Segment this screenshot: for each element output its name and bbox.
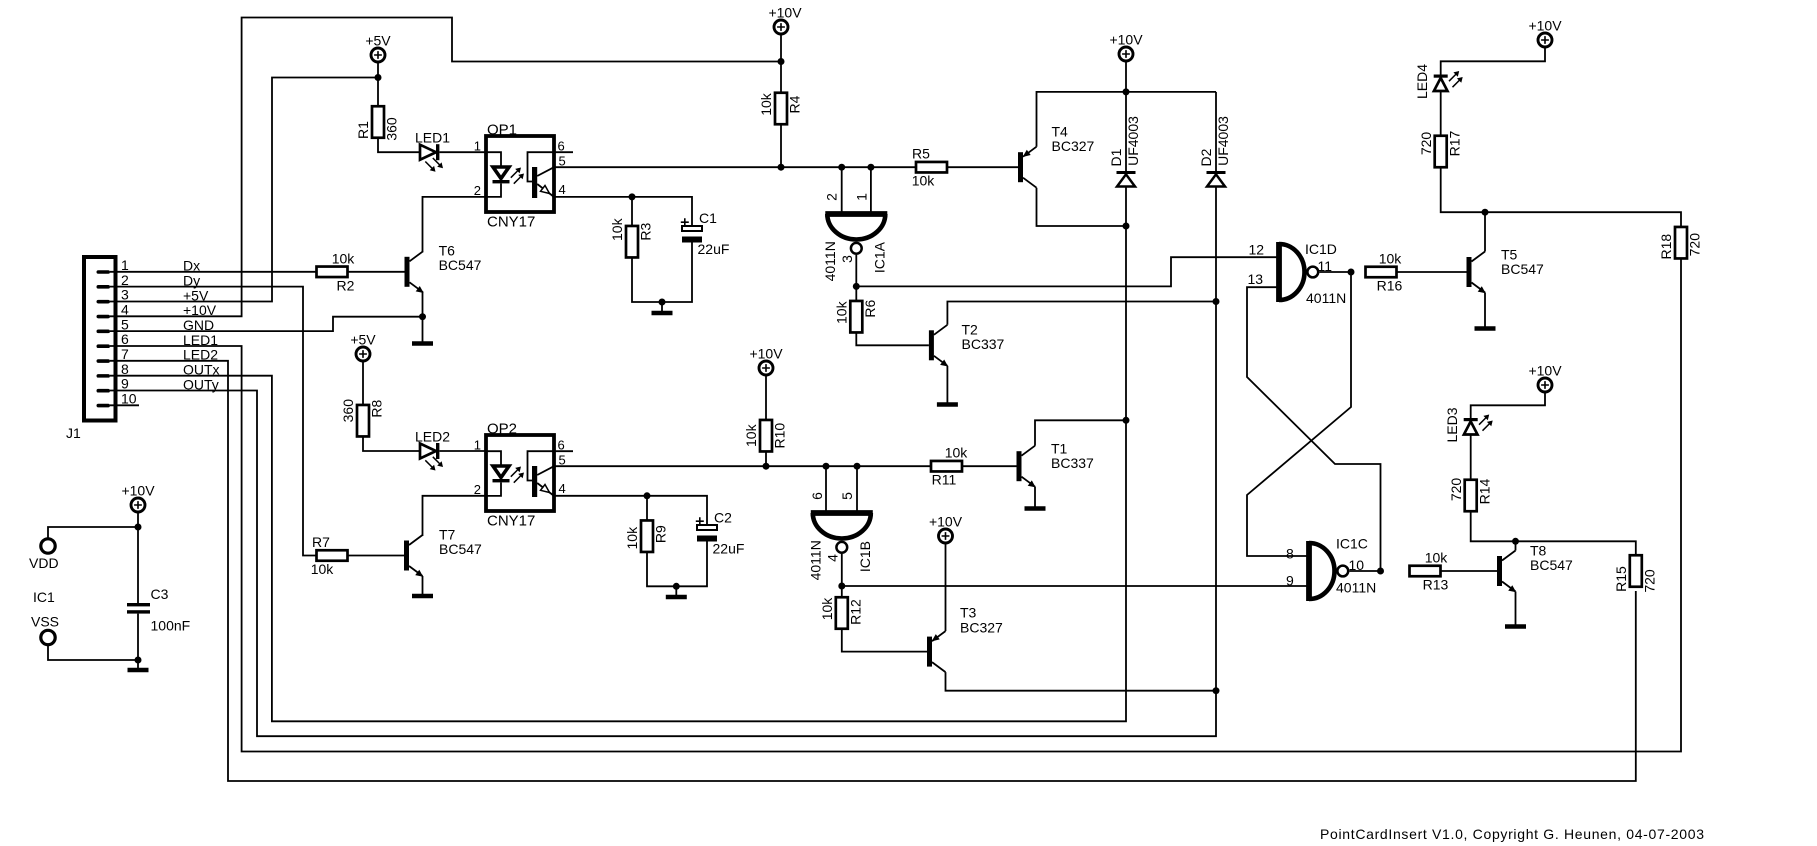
wire IC1B out to IC1C pin9 [842, 585, 1307, 587]
svg-text:3: 3 [121, 287, 129, 303]
svg-text:1: 1 [121, 257, 129, 273]
svg-text:5: 5 [121, 316, 129, 332]
power +10V (R10) [749, 346, 783, 376]
svg-text:BC547: BC547 [1530, 557, 1573, 573]
svg-text:UF4003: UF4003 [1215, 116, 1231, 166]
wire pin1 Dx to R2 [110, 271, 317, 273]
svg-text:BC337: BC337 [962, 336, 1005, 352]
svg-text:4011N: 4011N [808, 540, 824, 580]
svg-text:+10V: +10V [121, 483, 155, 499]
svg-text:IC1B: IC1B [857, 541, 873, 572]
svg-text:4: 4 [559, 481, 566, 496]
svg-text:+5V: +5V [350, 332, 376, 348]
wire IC1C out cross to IC1D pin13 [1247, 287, 1381, 571]
svg-text:R18: R18 [1658, 234, 1674, 260]
svg-text:BC547: BC547 [1501, 261, 1544, 277]
wire IC1B input pin6 [825, 466, 827, 511]
svg-text:100nF: 100nF [151, 618, 191, 634]
resistor R6 10k [834, 300, 879, 333]
svg-text:LED1: LED1 [415, 130, 450, 146]
junction IC1D out/R16 [1348, 269, 1355, 276]
wire +10V to LED4 [1441, 47, 1545, 75]
wire T3 collector [946, 672, 1217, 691]
wire pin8 OUTx to D1 node [110, 186, 1126, 721]
wire R12 to T3 base [842, 629, 928, 652]
svg-text:R2: R2 [337, 277, 355, 293]
wire R5 to T4 base [947, 166, 1018, 168]
svg-text:T8: T8 [1530, 542, 1547, 558]
svg-text:8: 8 [121, 361, 129, 377]
junction T5 collector/LED4/R18 [1482, 209, 1489, 216]
svg-text:720: 720 [1448, 478, 1464, 502]
nand gate IC1B 4011N [808, 492, 874, 581]
wire D2 top [1215, 92, 1217, 171]
junction pin4/R3 [629, 193, 636, 200]
J1 net name labels [183, 258, 220, 393]
junction D2/T3 collector [1213, 687, 1220, 694]
wire +10V to R10 [765, 375, 767, 421]
ground R9/C2 [666, 586, 687, 597]
wire pin9 OUTy to D2 node [110, 186, 1216, 736]
transistor T7 BC547 [404, 527, 482, 577]
junction IC1A out/R6 [853, 283, 860, 290]
svg-text:3: 3 [839, 255, 855, 263]
resistor R5 10k [912, 146, 947, 189]
svg-text:10k: 10k [1425, 550, 1449, 566]
svg-text:R12: R12 [848, 599, 864, 625]
svg-text:+10V: +10V [1528, 363, 1562, 379]
resistor R9 10k [624, 520, 669, 552]
wire R2 to T6 base [348, 271, 405, 273]
svg-text:R14: R14 [1476, 478, 1492, 504]
resistor R14 720 [1448, 478, 1493, 512]
wire T3 emitter to +10V [945, 543, 947, 632]
svg-text:R4: R4 [787, 95, 803, 113]
terminal VSS [31, 614, 59, 645]
svg-text:LED3: LED3 [1444, 407, 1460, 442]
diode D2 UF4003 [1198, 116, 1231, 187]
power +10V (T3) [929, 514, 963, 544]
junction IC1B pin5 tap [854, 463, 861, 470]
svg-text:UF4003: UF4003 [1125, 116, 1141, 166]
ground T1 [1025, 506, 1046, 509]
wire R16 to T5 base [1397, 271, 1467, 273]
svg-text:8: 8 [1286, 545, 1294, 561]
resistor R4 10k [758, 92, 803, 124]
transistor T4 BC327 [1018, 124, 1095, 188]
ground T6 [412, 317, 433, 344]
junction R4/pin5 rail [778, 164, 785, 171]
svg-text:PointCardInsert V1.0, Copyrigh: PointCardInsert V1.0, Copyright G. Heune… [1320, 826, 1704, 842]
svg-text:6: 6 [121, 331, 129, 347]
wire IC1A out to IC1D pin12 [856, 257, 1277, 286]
junction +5V/pin3 [375, 74, 382, 81]
svg-text:T6: T6 [439, 243, 456, 259]
wire R6 top [855, 286, 857, 301]
junction IC1A pin1 tap [867, 164, 874, 171]
wire R8 to LED2 [363, 437, 420, 452]
svg-text:1: 1 [474, 438, 481, 453]
diode D1 UF4003 [1108, 116, 1141, 187]
svg-text:10k: 10k [912, 173, 936, 189]
svg-text:T1: T1 [1051, 441, 1068, 457]
resistor R7 10k [311, 534, 348, 577]
svg-text:1: 1 [474, 139, 481, 154]
wire R9 top [646, 496, 648, 521]
wire R6 to T2 base [856, 333, 929, 346]
svg-text:22uF: 22uF [713, 541, 745, 557]
svg-text:+10V: +10V [1528, 18, 1562, 34]
svg-text:2: 2 [474, 183, 481, 198]
nand gate IC1C 4011N [1286, 536, 1376, 602]
wire R1 to LED1 [378, 138, 420, 152]
svg-text:R17: R17 [1446, 130, 1462, 156]
wire LED2 to OP2 pin1 [440, 450, 487, 452]
power +10V (LED3) [1528, 363, 1562, 393]
svg-text:T7: T7 [439, 527, 456, 543]
svg-text:7: 7 [121, 346, 129, 362]
svg-text:4011N: 4011N [1306, 290, 1346, 306]
wire pin3 +5V riser [110, 78, 378, 302]
title text [1320, 826, 1704, 842]
wire R9 bottom [647, 552, 676, 586]
wire +10V to LED3 [1471, 392, 1545, 419]
wire R13 to T8 base [1441, 570, 1498, 572]
junction IC1A pin2 tap [838, 164, 845, 171]
wire OP1 pin5 to R5 [554, 166, 916, 168]
svg-text:C1: C1 [699, 210, 717, 226]
svg-text:R8: R8 [369, 400, 385, 418]
svg-text:R5: R5 [912, 146, 930, 162]
svg-text:6: 6 [809, 492, 825, 500]
junction rail/D1 [1123, 88, 1130, 95]
svg-text:R10: R10 [772, 423, 788, 449]
svg-text:+10V: +10V [929, 514, 963, 530]
svg-text:C2: C2 [714, 510, 732, 526]
junction +10V rail/pin4 [778, 58, 785, 65]
svg-text:10k: 10k [332, 250, 356, 266]
svg-text:R11: R11 [932, 472, 957, 488]
wire R12 top [841, 586, 843, 597]
svg-text:720: 720 [1687, 233, 1703, 257]
svg-text:R9: R9 [653, 525, 669, 543]
wire VDD to rail [48, 527, 138, 539]
wire node to R18 [1485, 212, 1681, 227]
wire T6 emitter down [422, 292, 424, 316]
svg-text:CNY17: CNY17 [487, 214, 535, 231]
wire R7 to T7 base [348, 555, 405, 557]
svg-text:10k: 10k [624, 526, 640, 550]
wire pin4 +10V riser top route [110, 18, 781, 317]
wire C2 bottom [676, 542, 707, 587]
wire IC1D output [1320, 271, 1352, 273]
svg-text:R6: R6 [862, 300, 878, 318]
svg-text:BC547: BC547 [439, 257, 482, 273]
junction VSS/C3 gnd [135, 657, 142, 664]
svg-text:IC1: IC1 [33, 589, 55, 605]
resistor R17 720 [1418, 130, 1463, 167]
J1 pin numbers 1-10 [121, 257, 137, 407]
svg-text:10k: 10k [819, 597, 835, 621]
wire OP1 pin4 to RC [554, 197, 692, 226]
svg-text:720: 720 [1418, 132, 1434, 156]
junction IC1B pin6 tap [823, 463, 830, 470]
svg-text:1: 1 [853, 193, 869, 201]
svg-text:IC1C: IC1C [1336, 536, 1368, 552]
wire VSS to gnd rail [48, 644, 138, 660]
svg-text:R7: R7 [312, 534, 330, 550]
wire R3 top [631, 197, 633, 226]
transistor T3 BC327 [927, 605, 1003, 672]
wire OP1 pin2 to T6 collector [423, 197, 487, 252]
svg-text:T4: T4 [1052, 124, 1069, 140]
wire T1 collector [1035, 420, 1126, 445]
svg-text:22uF: 22uF [698, 241, 730, 257]
svg-text:12: 12 [1249, 242, 1265, 258]
resistor R15 720 [1613, 555, 1658, 592]
svg-text:2: 2 [474, 482, 481, 497]
svg-text:10k: 10k [1379, 251, 1403, 267]
resistor R11 10k [931, 445, 968, 488]
power +10V (R4) [768, 5, 802, 35]
svg-text:+5V: +5V [365, 33, 391, 49]
wire pin7 LED2 to R15 bottom [110, 361, 1636, 781]
connector J1 [66, 257, 116, 441]
wire R4 to OP1 pin5 rail [780, 124, 782, 167]
svg-text:C3: C3 [151, 586, 169, 602]
wire +10V to C3 [137, 512, 139, 604]
svg-text:10k: 10k [311, 561, 335, 577]
svg-text:LED2: LED2 [415, 429, 450, 445]
svg-text:VSS: VSS [31, 614, 59, 630]
svg-text:4: 4 [121, 302, 129, 318]
wire T5 emitter [1484, 293, 1486, 327]
svg-text:T3: T3 [960, 605, 977, 621]
svg-text:2: 2 [121, 272, 129, 288]
svg-text:5: 5 [559, 453, 566, 468]
ground T7 [412, 594, 433, 597]
capacitor C1 22uF [681, 210, 730, 257]
svg-text:R3: R3 [638, 223, 654, 241]
resistor R2 10k [317, 250, 356, 293]
wire R17 to T5 collector node [1441, 167, 1485, 212]
power +10V (rail) [1109, 32, 1143, 62]
resistor R13 10k [1410, 550, 1449, 593]
junction VDD/+10V [135, 524, 142, 531]
svg-text:T2: T2 [962, 322, 979, 338]
capacitor C2 22uF [696, 510, 745, 557]
nand gate IC1D 4011N [1248, 241, 1347, 306]
transistor T6 BC547 [405, 243, 482, 293]
svg-text:R16: R16 [1377, 278, 1403, 294]
wire node to R15 [1516, 541, 1636, 555]
power +5V (R8) [350, 332, 376, 362]
ground R3/C1 [652, 302, 673, 313]
svg-text:IC1D: IC1D [1305, 241, 1337, 257]
svg-text:VDD: VDD [29, 555, 59, 571]
wire +10V to R4 [780, 34, 782, 94]
wire pin2 Dy to R7 [110, 287, 317, 556]
resistor R3 10k [609, 217, 654, 257]
wire T2 collector to D2 node [947, 302, 1216, 325]
svg-text:5: 5 [839, 492, 855, 500]
ground T5 [1475, 326, 1496, 329]
wire T2 emitter [946, 366, 948, 402]
svg-text:+10V: +10V [768, 5, 802, 21]
LED LED4 [1414, 64, 1463, 99]
wire LED4 to R17 [1440, 91, 1442, 136]
nand gate IC1A 4011N [822, 193, 888, 282]
svg-text:BC327: BC327 [1052, 138, 1095, 154]
svg-text:13: 13 [1248, 271, 1264, 287]
junction D2/T2 collector [1213, 298, 1220, 305]
svg-text:2: 2 [824, 193, 840, 201]
svg-text:D2: D2 [1198, 148, 1214, 166]
junction IC1C out/R13 [1377, 568, 1384, 575]
svg-text:6: 6 [558, 438, 565, 453]
power +5V (R1) [365, 33, 391, 63]
wire T5 collector [1484, 212, 1486, 251]
wire LED1 to OP1 pin1 [440, 151, 487, 153]
svg-text:R15: R15 [1613, 566, 1629, 592]
svg-text:6: 6 [558, 139, 565, 154]
wire R3 bottom [632, 258, 662, 303]
svg-text:360: 360 [340, 399, 356, 423]
LED LED3 [1444, 407, 1493, 442]
wire OP2 pin4 to RC [554, 496, 707, 525]
svg-text:IC1A: IC1A [872, 241, 888, 273]
wire T4 collector [1037, 188, 1127, 226]
svg-text:4: 4 [825, 554, 841, 562]
svg-text:5: 5 [559, 154, 566, 169]
ground C3 [128, 660, 149, 670]
wire IC1B output [841, 554, 843, 586]
svg-text:R1: R1 [355, 121, 371, 139]
resistor R10 10k [743, 420, 788, 452]
svg-text:OP2: OP2 [487, 421, 517, 438]
junction T6 emitter/GND [419, 313, 426, 320]
svg-text:4011N: 4011N [822, 241, 838, 281]
junction pin4/R9 [644, 492, 651, 499]
svg-text:10k: 10k [609, 217, 625, 241]
terminal VDD [29, 539, 59, 571]
wire +5V to R8 [362, 361, 364, 406]
resistor R8 360 [340, 399, 385, 437]
junction OUTx/T1 collector [1123, 417, 1130, 424]
svg-text:4: 4 [559, 182, 566, 197]
svg-text:4011N: 4011N [1336, 580, 1376, 596]
wire R10 bottom [765, 452, 767, 467]
transistor T1 BC337 [1017, 441, 1095, 488]
svg-text:BC327: BC327 [960, 619, 1003, 635]
capacitor C3 100nF [127, 586, 190, 634]
power +10V (IC1) [121, 483, 155, 513]
wire T1 emitter [1034, 487, 1036, 506]
wire R14 to T8 node [1471, 511, 1516, 541]
svg-text:10: 10 [121, 391, 137, 407]
wire pin6 LED1 to R18 bottom [110, 259, 1681, 752]
svg-text:BC337: BC337 [1051, 455, 1094, 471]
ground T2 [937, 402, 958, 405]
transistor T2 BC337 [929, 322, 1005, 367]
LED LED1 [415, 130, 450, 172]
svg-text:CNY17: CNY17 [487, 513, 535, 530]
svg-text:10k: 10k [945, 445, 969, 461]
svg-text:360: 360 [384, 117, 400, 141]
opto-coupler OP1 CNY17 [474, 122, 573, 231]
wire T8 collector [1515, 541, 1517, 550]
svg-text:9: 9 [121, 376, 129, 392]
svg-text:+10V: +10V [1109, 32, 1143, 48]
wire R11 to T1 base [962, 465, 1017, 467]
wire T8 emitter [1515, 592, 1517, 625]
svg-text:J1: J1 [66, 425, 81, 441]
svg-text:+10V: +10V [749, 346, 783, 362]
wire IC1A input pin1 [870, 167, 872, 212]
svg-text:BC547: BC547 [439, 541, 482, 557]
junction T8 collector/LED3/R15 [1512, 538, 1519, 545]
wire OP2 pin5 to R11 [554, 465, 932, 467]
svg-text:D1: D1 [1108, 148, 1124, 166]
wire pin5 GND to T6 emitter [110, 317, 423, 331]
opto-coupler OP2 CNY17 [474, 421, 573, 530]
wire IC1A output [855, 255, 857, 286]
svg-text:T5: T5 [1501, 247, 1518, 263]
wire OP2 pin2 to T7 collector [423, 496, 487, 536]
wire T7 emitter [422, 576, 424, 594]
label IC1 [33, 589, 55, 605]
wire IC1B input pin5 [856, 466, 858, 511]
wire +5V stem to R1 [377, 62, 379, 107]
wire C3 bottom [137, 614, 139, 660]
transistor T5 BC547 [1467, 247, 1545, 294]
LED LED2 [415, 429, 450, 471]
power +10V (LED4) [1528, 18, 1562, 48]
svg-text:9: 9 [1286, 573, 1294, 589]
svg-text:OP1: OP1 [487, 122, 517, 139]
svg-text:10k: 10k [743, 423, 759, 447]
svg-text:R13: R13 [1423, 577, 1449, 593]
svg-text:10k: 10k [758, 92, 774, 116]
resistor R16 10k [1366, 251, 1403, 294]
resistor R18 720 [1658, 227, 1703, 260]
wire pin10 stub [110, 404, 139, 406]
ground T8 [1505, 624, 1526, 627]
wire C1 bottom [662, 243, 692, 303]
wire IC1C output [1350, 570, 1381, 572]
wire +10V stem rail [1125, 61, 1127, 92]
junction IC1B out/R12 [838, 583, 845, 590]
wire T4 emitter to +10V rail [1037, 92, 1217, 147]
wire IC1D out cross to IC1C pin8 [1247, 272, 1351, 556]
junction R10/pin5 rail [763, 463, 770, 470]
svg-text:LED4: LED4 [1414, 64, 1430, 99]
svg-text:10k: 10k [834, 300, 850, 324]
junction R9/C2 gnd [673, 583, 680, 590]
resistor R1 360 [355, 106, 400, 140]
transistor T8 BC547 [1497, 542, 1573, 592]
resistor R12 10k [819, 597, 864, 629]
junction R3/C1 gnd [659, 299, 666, 306]
wire IC1A input pin2 [841, 167, 843, 212]
wire LED3 to R14 [1470, 435, 1472, 481]
svg-text:720: 720 [1642, 569, 1658, 593]
wire rail to D1 [1125, 92, 1127, 171]
junction T4/D1/OUTx [1123, 223, 1130, 230]
